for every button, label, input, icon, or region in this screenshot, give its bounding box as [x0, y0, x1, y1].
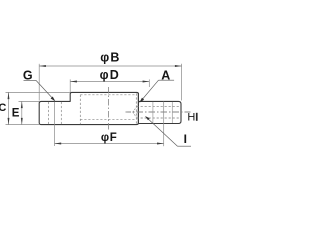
threaded boss outline (right side)	[139, 101, 181, 123]
phi-B arrowhead right	[175, 65, 182, 67]
thread end line in boss (right)	[171, 102, 173, 123]
phi-B extension line left	[38, 64, 40, 101]
A leader underline	[159, 79, 175, 81]
C arrowhead bottom	[8, 118, 10, 125]
phi-F arrowhead right	[157, 143, 164, 145]
svg-text:H: H	[187, 112, 195, 124]
svg-text:φB: φB	[100, 51, 120, 65]
E dimension line	[21, 101, 23, 124]
I leader arrowhead	[145, 116, 150, 120]
phi-D dimension line	[70, 81, 149, 83]
G leader underline	[24, 79, 37, 81]
horizontal centerline of threaded hole	[126, 111, 191, 113]
phi-F extension line left	[54, 102, 56, 146]
threaded hole I hidden line (lower)	[137, 117, 180, 119]
svg-text:C: C	[0, 102, 6, 114]
svg-text:E: E	[12, 107, 20, 119]
G leader arrowhead	[51, 97, 56, 102]
E arrowhead bottom	[21, 118, 23, 125]
svg-text:φF: φF	[101, 132, 118, 144]
C and E shared extension line bottom	[6, 124, 40, 126]
phi-B dimension line	[39, 65, 181, 67]
vertical centerline of pocket	[107, 87, 109, 131]
phi-D extension line right	[148, 79, 150, 87]
svg-text:I: I	[184, 132, 187, 146]
G leader line	[36, 80, 54, 100]
flange plate body outline	[39, 92, 138, 124]
phi-D extension line left	[69, 79, 71, 92]
plate right edge joint line	[137, 93, 139, 124]
C extension line top	[6, 91, 71, 93]
phi-B extension line right	[181, 64, 183, 101]
C arrowhead top	[8, 92, 10, 99]
A leader line	[141, 80, 159, 101]
A leader arrowhead	[139, 98, 144, 103]
hidden pocket left edge in plate	[79, 95, 81, 124]
I leader line	[146, 117, 177, 146]
H dimension tick	[196, 113, 198, 121]
threaded hole I hidden line (upper)	[137, 105, 180, 107]
thread end line in boss (left)	[152, 102, 154, 123]
C dimension line	[8, 92, 10, 124]
bolt hole G hidden line (left edge)	[47, 102, 49, 124]
E extension line top	[19, 100, 40, 102]
hidden pocket top edge in plate	[80, 94, 136, 96]
hidden pocket bottom edge in plate	[80, 118, 136, 120]
tap drill end hidden line at plate right	[135, 93, 137, 124]
phi-F extension line right	[163, 102, 165, 147]
phi-F arrowhead left	[55, 143, 62, 145]
drill point cone hidden lines	[133, 107, 137, 117]
svg-text:φD: φD	[100, 68, 120, 82]
phi-B arrowhead left	[39, 65, 46, 67]
phi-D arrowhead right	[143, 81, 150, 83]
phi-F dimension line	[55, 143, 164, 145]
E arrowhead top	[21, 101, 23, 108]
phi-D arrowhead left	[70, 81, 77, 83]
I leader underline	[178, 145, 192, 147]
bolt hole G hidden line (right edge)	[60, 102, 62, 124]
